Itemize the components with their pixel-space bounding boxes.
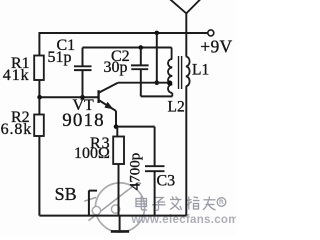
transistor VT base bar	[97, 90, 99, 103]
watermark small circle A	[92, 206, 100, 214]
svg-text:30p: 30p	[104, 59, 128, 76]
wire: bottom ground rail	[39, 215, 186, 217]
wire: R1 bottom lead	[38, 80, 40, 97]
svg-text:SB: SB	[55, 184, 77, 204]
resistor R1	[34, 56, 44, 81]
wire: emitter lead down	[115, 111, 117, 127]
resistor R2	[34, 115, 44, 137]
svg-text:100Ω: 100Ω	[74, 145, 110, 162]
svg-text:L1: L1	[192, 61, 209, 78]
svg-text:51p: 51p	[48, 49, 72, 66]
node base/R1/R2	[37, 95, 42, 100]
transformer core	[179, 56, 182, 89]
capacitor C1	[74, 48, 92, 98]
wire: left column to ground rail	[38, 136, 40, 216]
capacitor C3	[145, 127, 165, 216]
wire: antenna mast / L1 column	[185, 13, 187, 56]
resistor R3	[113, 137, 124, 165]
inductor L1 (antenna winding)	[186, 57, 190, 87]
wire: tank top wire	[83, 47, 172, 49]
transistor VT emitter with arrow	[99, 100, 116, 111]
svg-text:4700p: 4700p	[127, 153, 143, 191]
svg-text:L2: L2	[168, 99, 185, 116]
node +9V drop / top rail	[155, 31, 160, 36]
wire C: tank bottom	[141, 95, 173, 97]
antenna	[170, 0, 201, 13]
transistor VT collector	[99, 83, 118, 93]
svg-text:41k: 41k	[3, 67, 30, 84]
watermark chinese text 电子发烧友 (approximated strokes)	[136, 196, 226, 210]
wire B: collector to coil tap	[118, 82, 170, 84]
node L2 tap	[167, 80, 172, 85]
wire: R3 bottom lead	[118, 164, 120, 216]
wire: R1 top lead	[38, 32, 40, 55]
svg-text:C3: C3	[157, 172, 176, 189]
node C2/tank top	[139, 45, 144, 50]
svg-text:9018: 9018	[62, 110, 104, 131]
node +9V drop / wire B	[155, 80, 160, 85]
watermark cord line	[84, 183, 141, 221]
watermark small circle B	[111, 205, 119, 213]
node C1/base	[80, 95, 85, 100]
ground	[111, 216, 129, 232]
wire: L1 bottom to ground rail	[185, 86, 187, 215]
wire: base wire	[39, 96, 97, 98]
switch SB	[89, 190, 97, 215]
terminal +9V	[208, 30, 214, 36]
svg-text:6.8k: 6.8k	[1, 121, 33, 138]
node emitter/R3/C3	[114, 124, 119, 129]
wire: +9V top rail	[39, 32, 207, 34]
wire: emitter node to C3	[116, 126, 155, 128]
capacitor C2	[131, 48, 149, 97]
inductor L2 (tank winding)	[168, 48, 172, 97]
wire: +9V drop to coil tap wire	[156, 33, 158, 83]
watermark logo circle	[95, 183, 144, 232]
wire: R2 top lead	[38, 97, 40, 114]
svg-text:+9V: +9V	[200, 37, 232, 57]
wire: R3 top lead	[116, 127, 118, 137]
